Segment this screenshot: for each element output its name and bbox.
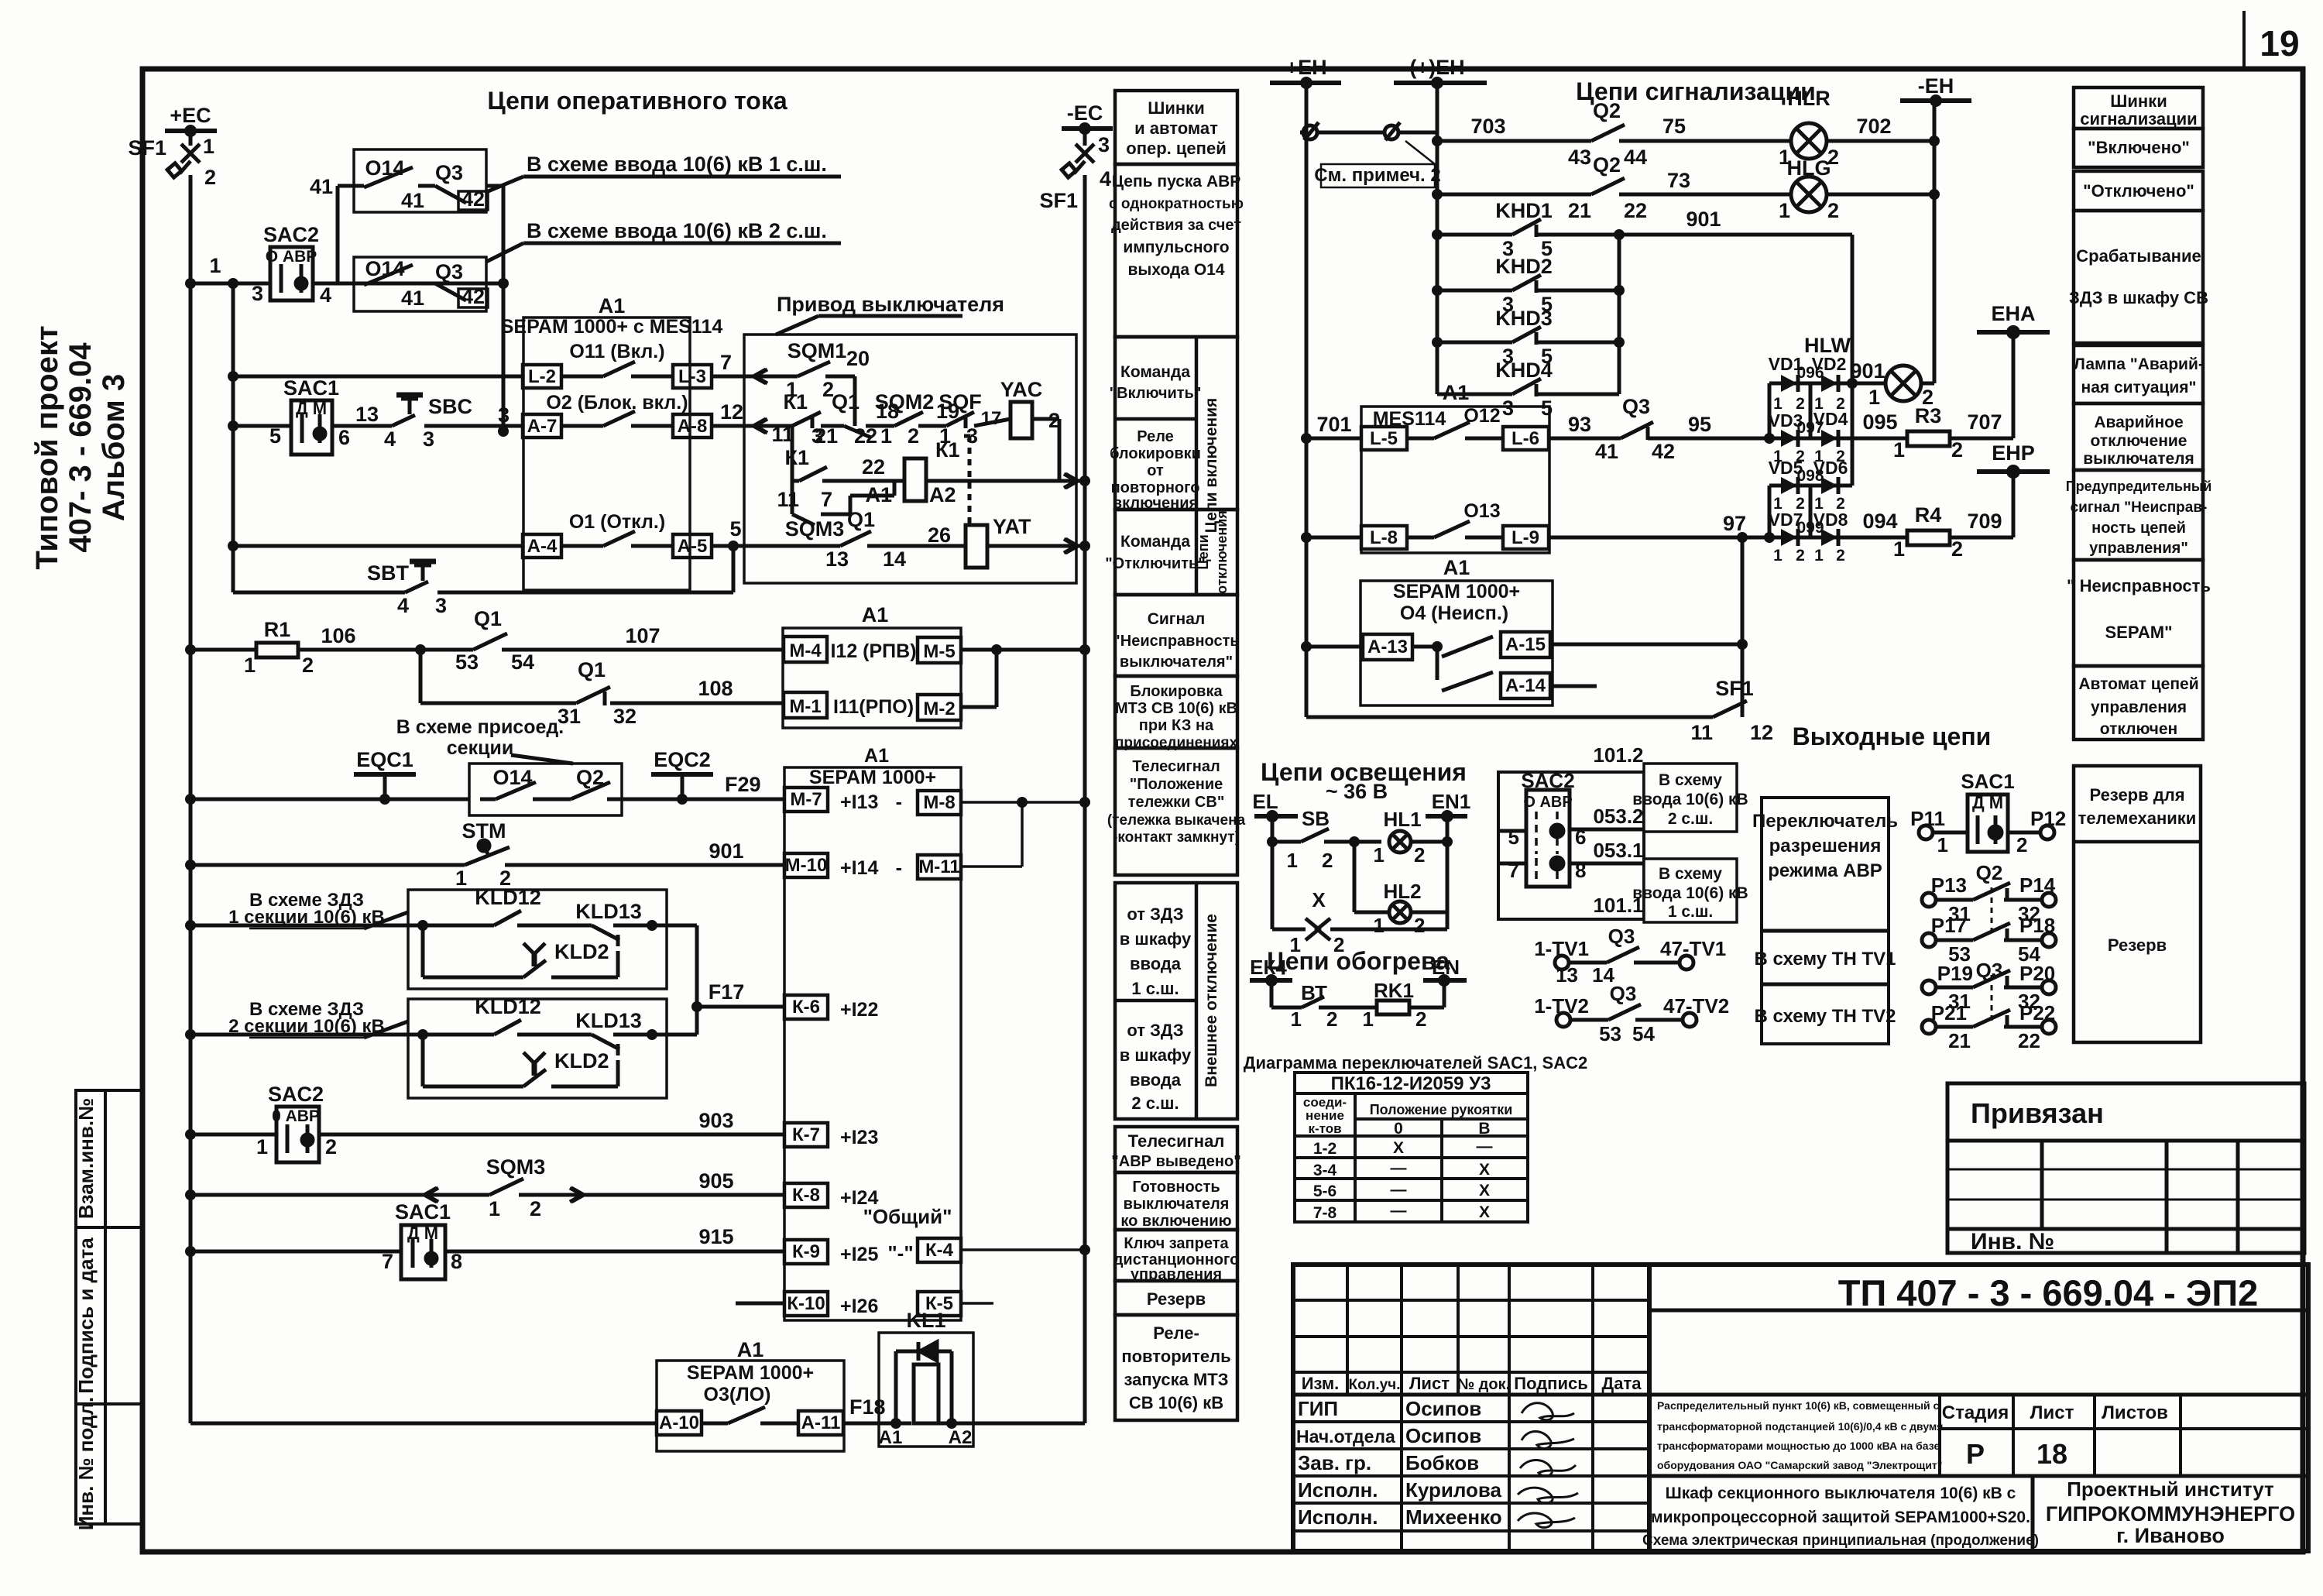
svg-text:запуска МТЗ: запуска МТЗ [1124, 1370, 1229, 1389]
svg-text:Аварийное: Аварийное [2094, 414, 2183, 431]
svg-text:Привязан: Привязан [1971, 1097, 2104, 1129]
svg-text:1: 1 [203, 135, 214, 158]
svg-text:микропроцессорной защитой SEPA: микропроцессорной защитой SEPAM1000+S20. [1651, 1508, 2030, 1526]
svg-text:1: 1 [455, 867, 467, 890]
svg-text:Резерв: Резерв [1147, 1289, 1206, 1309]
svg-text:20: 20 [846, 347, 870, 370]
svg-text:ввода: ввода [1130, 954, 1182, 973]
svg-text:Х: Х [1393, 1139, 1404, 1157]
svg-text:F18: F18 [849, 1395, 886, 1419]
svg-text:97: 97 [1723, 512, 1746, 535]
svg-text:К-8: К-8 [792, 1185, 820, 1206]
svg-text:Исполн.: Исполн. [1298, 1505, 1378, 1529]
svg-text:4: 4 [320, 283, 331, 307]
svg-text:"Положение: "Положение [1130, 776, 1223, 793]
svg-text:096: 096 [1796, 364, 1824, 382]
svg-text:Подпись и дата: Подпись и дата [74, 1237, 98, 1394]
svg-text:SEPAM 1000+: SEPAM 1000+ [687, 1362, 814, 1384]
svg-text:О1 (Откл.): О1 (Откл.) [569, 511, 665, 533]
svg-text:+I22: +I22 [840, 999, 878, 1021]
svg-text:SEPAM 1000+: SEPAM 1000+ [1393, 581, 1520, 602]
svg-text:трансформаторной подстанцией 1: трансформаторной подстанцией 10(6)/0,4 к… [1657, 1420, 1943, 1433]
svg-text:707: 707 [1967, 410, 2002, 434]
svg-text:SEPAM": SEPAM" [2105, 623, 2172, 642]
svg-text:ЕК4: ЕК4 [1250, 956, 1287, 979]
svg-text:Схема электрическая принципиал: Схема электрическая принципиальная (прод… [1642, 1533, 2039, 1549]
svg-text:32: 32 [613, 705, 637, 728]
svg-text:KHD4: KHD4 [1495, 359, 1553, 382]
svg-text:присоединениях: присоединениях [1115, 735, 1238, 751]
svg-text:73: 73 [1667, 169, 1690, 192]
svg-text:1: 1 [1937, 833, 1948, 856]
svg-text:Х: Х [1479, 1161, 1490, 1179]
svg-text:Команда: Команда [1120, 363, 1190, 381]
svg-text:М-5: М-5 [923, 641, 955, 662]
svg-text:18: 18 [2036, 1438, 2067, 1470]
svg-text:выключателя: выключателя [1124, 1196, 1230, 1213]
svg-text:Q3: Q3 [1608, 925, 1635, 948]
svg-text:О2 (Блок. вкл.): О2 (Блок. вкл.) [546, 392, 688, 414]
svg-text:Q3: Q3 [1622, 395, 1650, 418]
svg-text:К1: К1 [784, 390, 808, 414]
svg-text:К1: К1 [935, 438, 960, 462]
svg-text:трансформаторами мощностью до: трансформаторами мощностью до 1000 кВА н… [1657, 1440, 1940, 1452]
svg-text:108: 108 [698, 677, 733, 700]
svg-text:г. Иваново: г. Иваново [2116, 1524, 2225, 1547]
svg-text:Цепь пуска АВР: Цепь пуска АВР [1112, 173, 1241, 190]
svg-text:отключен: отключен [2100, 720, 2177, 738]
svg-text:901: 901 [1686, 208, 1721, 231]
svg-text:К-6: К-6 [792, 997, 820, 1018]
svg-text:К-4: К-4 [925, 1240, 954, 1261]
svg-text:(+)ЕН: (+)ЕН [1409, 56, 1464, 79]
svg-text:Стадия: Стадия [1942, 1402, 2009, 1423]
svg-text:Q3: Q3 [1610, 982, 1637, 1005]
svg-text:1: 1 [244, 654, 256, 677]
svg-text:Д М: Д М [1972, 793, 2003, 812]
svg-text:Q3: Q3 [1976, 959, 2003, 982]
svg-text:Альбом 3: Альбом 3 [97, 374, 131, 521]
svg-text:М-4: М-4 [789, 640, 822, 661]
svg-text:Предупредительный: Предупредительный [2066, 479, 2212, 494]
svg-text:Шкаф секционного выключателя 1: Шкаф секционного выключателя 10(6) кВ с [1666, 1484, 2016, 1502]
svg-text:2: 2 [1951, 438, 1963, 462]
svg-text:11: 11 [771, 423, 794, 446]
svg-text:Резерв: Резерв [2108, 935, 2167, 955]
svg-text:1: 1 [1291, 1007, 1302, 1031]
svg-text:19: 19 [2260, 23, 2299, 63]
svg-text:KLD2: KLD2 [554, 940, 609, 963]
svg-text:—: — [1391, 1202, 1407, 1220]
svg-text:5-6: 5-6 [1313, 1182, 1336, 1200]
svg-text:"Отключено": "Отключено" [2083, 181, 2194, 201]
svg-text:14: 14 [883, 547, 906, 571]
svg-text:М-1: М-1 [789, 696, 821, 717]
svg-text:47-TV2: 47-TV2 [1663, 994, 1729, 1018]
svg-text:ввода 10(6) кВ: ввода 10(6) кВ [1632, 791, 1748, 808]
svg-text:11: 11 [777, 488, 799, 511]
svg-text:Зав. гр.: Зав. гр. [1298, 1451, 1371, 1474]
svg-text:при КЗ на: при КЗ на [1139, 717, 1214, 734]
svg-text:R1: R1 [264, 618, 291, 641]
svg-text:22: 22 [2018, 1029, 2040, 1052]
svg-text:О14: О14 [492, 766, 532, 789]
svg-text:EQC1: EQC1 [356, 748, 413, 771]
svg-text:42: 42 [1652, 440, 1675, 463]
svg-text:телемеханики: телемеханики [2078, 808, 2197, 828]
svg-text:L-2: L-2 [528, 366, 556, 387]
svg-text:Х: Х [1479, 1182, 1490, 1200]
svg-text:О4 (Неисп.): О4 (Неисп.) [1400, 602, 1508, 624]
svg-text:Осипов: Осипов [1405, 1424, 1481, 1447]
svg-text:3-4: 3-4 [1313, 1162, 1337, 1179]
svg-text:В схему ТН TV1: В схему ТН TV1 [1755, 949, 1896, 970]
svg-text:См. примеч. 2: См. примеч. 2 [1314, 165, 1440, 186]
svg-text:О14: О14 [365, 156, 404, 180]
svg-text:Взам.инв.№: Взам.инв.№ [74, 1098, 98, 1219]
svg-text:Q1: Q1 [832, 390, 860, 414]
svg-text:0: 0 [1394, 1120, 1403, 1138]
svg-text:Михеенко: Михеенко [1405, 1505, 1502, 1529]
svg-text:Листов: Листов [2102, 1402, 2168, 1423]
svg-text:MES114: MES114 [1373, 408, 1446, 430]
svg-text:2: 2 [1836, 547, 1845, 565]
svg-text:Нач.отдела: Нач.отдела [1296, 1426, 1395, 1447]
svg-text:Сигнал: Сигнал [1148, 610, 1206, 628]
svg-text:905: 905 [698, 1169, 733, 1193]
svg-text:-ЕН: -ЕН [1918, 74, 1954, 98]
svg-text:P14: P14 [2019, 874, 2056, 897]
svg-text:О АВР: О АВР [1523, 794, 1572, 811]
svg-text:Q2: Q2 [1976, 861, 2003, 884]
svg-text:Реле: Реле [1137, 428, 1174, 445]
svg-text:KHD3: KHD3 [1495, 307, 1553, 330]
svg-text:Лист: Лист [1409, 1374, 1450, 1393]
svg-text:93: 93 [1568, 413, 1591, 436]
svg-text:53: 53 [1599, 1022, 1621, 1045]
svg-text:выхода О14: выхода О14 [1127, 261, 1224, 279]
svg-text:1: 1 [1374, 843, 1385, 867]
svg-text:ТП 407 - 3 - 669.04 - ЭП2: ТП 407 - 3 - 669.04 - ЭП2 [1838, 1272, 2259, 1313]
svg-text:2: 2 [1414, 843, 1425, 867]
svg-text:О3(ЛО): О3(ЛО) [704, 1384, 771, 1406]
svg-text:21: 21 [1568, 199, 1591, 222]
svg-text:режима АВР: режима АВР [1768, 860, 1882, 881]
svg-text:сигнализации: сигнализации [2080, 109, 2197, 129]
svg-text:5: 5 [1541, 396, 1553, 420]
svg-text:1: 1 [1374, 914, 1385, 937]
svg-text:Инв. №: Инв. № [1971, 1229, 2054, 1254]
svg-text:Срабатывание: Срабатывание [2076, 246, 2201, 266]
svg-text:А-10: А-10 [659, 1412, 699, 1433]
svg-text:О13: О13 [1463, 500, 1500, 522]
svg-text:опер. цепей: опер. цепей [1126, 139, 1226, 158]
svg-text:901: 901 [709, 839, 743, 863]
svg-text:903: 903 [698, 1109, 733, 1132]
svg-text:P19: P19 [1937, 962, 1973, 985]
svg-text:HLR: HLR [1787, 87, 1831, 110]
svg-text:2: 2 [302, 654, 314, 677]
svg-text:Подпись: Подпись [1514, 1374, 1588, 1393]
svg-text:0 АВР: 0 АВР [272, 1107, 320, 1125]
svg-text:1 секции 10(6) кВ: 1 секции 10(6) кВ [228, 907, 385, 928]
svg-text:P22: P22 [2019, 1001, 2055, 1025]
svg-text:+I14: +I14 [840, 857, 878, 879]
svg-text:2 с.ш.: 2 с.ш. [1131, 1093, 1179, 1113]
svg-text:Х: Х [1479, 1203, 1490, 1221]
svg-text:22: 22 [1624, 199, 1647, 222]
svg-text:Шинки: Шинки [1148, 98, 1204, 118]
svg-text:SQF: SQF [938, 390, 982, 414]
svg-text:7-8: 7-8 [1313, 1204, 1337, 1222]
svg-text:75: 75 [1662, 115, 1686, 138]
svg-text:41: 41 [310, 175, 333, 198]
svg-text:SAC2: SAC2 [263, 223, 319, 246]
svg-text:Команда: Команда [1120, 533, 1190, 551]
svg-text:ПК16-12-И2059 У3: ПК16-12-И2059 У3 [1331, 1073, 1491, 1094]
svg-text:1-TV2: 1-TV2 [1534, 994, 1589, 1018]
svg-text:К1: К1 [785, 446, 810, 469]
svg-text:оборудования ОАО "Самарский за: оборудования ОАО "Самарский завод "Элект… [1657, 1459, 1942, 1471]
svg-text:А1: А1 [1443, 381, 1470, 404]
svg-text:А1: А1 [879, 1427, 903, 1448]
svg-text:включения: включения [1113, 495, 1198, 512]
svg-text:В: В [1478, 1120, 1490, 1138]
svg-text:KHD1: KHD1 [1495, 199, 1553, 222]
svg-text:1 с.ш.: 1 с.ш. [1131, 979, 1179, 998]
svg-text:действия за счет: действия за счет [1111, 217, 1241, 234]
svg-text:ЕНА: ЕНА [1991, 302, 2035, 325]
svg-text:4: 4 [384, 427, 396, 451]
svg-text:А-11: А-11 [801, 1412, 841, 1433]
svg-text:"-": "-" [887, 1241, 913, 1265]
svg-text:097: 097 [1796, 419, 1824, 437]
svg-text:Ключ запрета: Ключ запрета [1124, 1235, 1229, 1252]
svg-text:"Отключить": "Отключить" [1105, 555, 1206, 572]
svg-text:P11: P11 [1910, 807, 1945, 830]
svg-text:I11(РПО): I11(РПО) [833, 696, 914, 718]
svg-text:SB: SB [1302, 807, 1330, 830]
svg-text:407- 3 - 669.04: 407- 3 - 669.04 [63, 342, 98, 553]
svg-text:106: 106 [321, 624, 355, 647]
svg-text:Q2: Q2 [1593, 99, 1621, 122]
svg-text:Диаграмма переключателей SAC1,: Диаграмма переключателей SAC1, SAC2 [1244, 1053, 1587, 1073]
svg-text:2: 2 [204, 166, 216, 189]
svg-text:SAC2: SAC2 [268, 1083, 324, 1106]
svg-text:P18: P18 [2019, 914, 2055, 937]
svg-text:1-2: 1-2 [1313, 1140, 1336, 1158]
svg-text:3: 3 [966, 424, 978, 448]
svg-text:KHD2: KHD2 [1495, 255, 1553, 278]
svg-text:Блокировка: Блокировка [1130, 683, 1223, 700]
svg-text:А1: А1 [737, 1338, 764, 1361]
svg-text:А-4: А-4 [527, 536, 558, 557]
svg-text:3: 3 [1502, 396, 1514, 420]
svg-text:с однократностью: с однократностью [1109, 196, 1244, 212]
svg-text:ность цепей: ность цепей [2091, 520, 2186, 537]
svg-text:К-7: К-7 [792, 1124, 820, 1145]
svg-text:В схеме ввода 10(6) кВ 2 с.ш.: В схеме ввода 10(6) кВ 2 с.ш. [527, 219, 827, 242]
svg-text:ввода 10(6) кВ: ввода 10(6) кВ [1632, 884, 1748, 902]
svg-text:"Общий": "Общий" [863, 1205, 952, 1228]
svg-text:RK1: RK1 [1374, 979, 1414, 1002]
svg-text:-: - [896, 791, 902, 813]
svg-text:1: 1 [1814, 547, 1824, 565]
svg-text:Q2: Q2 [1593, 153, 1621, 177]
svg-text:2: 2 [530, 1197, 541, 1220]
svg-text:"Включено": "Включено" [2088, 138, 2190, 157]
svg-text:1: 1 [1893, 537, 1905, 561]
svg-text:от ЗДЗ: от ЗДЗ [1127, 904, 1183, 924]
svg-text:SBC: SBC [428, 395, 472, 418]
svg-text:—: — [1391, 1159, 1407, 1177]
svg-text:EQC2: EQC2 [654, 748, 711, 771]
svg-text:отключения: отключения [1214, 510, 1230, 594]
svg-text:М-2: М-2 [923, 698, 955, 719]
svg-text:4: 4 [397, 594, 409, 617]
svg-text:EL: EL [1252, 790, 1278, 813]
svg-text:P17: P17 [1931, 914, 1967, 937]
svg-text:сигнал "Неисправ-: сигнал "Неисправ- [2071, 499, 2208, 516]
svg-text:в шкафу: в шкафу [1120, 929, 1192, 949]
svg-text:Распределительный пункт 10(6): Распределительный пункт 10(6) кВ, совмещ… [1657, 1399, 1940, 1412]
svg-text:О АВР: О АВР [266, 248, 317, 266]
svg-text:1: 1 [1868, 386, 1880, 409]
svg-text:L-8: L-8 [1370, 527, 1398, 548]
svg-text:+I25: +I25 [840, 1244, 878, 1265]
svg-text:О14: О14 [365, 257, 404, 280]
svg-text:от: от [1147, 462, 1164, 479]
svg-text:и автомат: и автомат [1134, 118, 1218, 138]
svg-text:2: 2 [908, 424, 919, 448]
svg-text:Проектный институт: Проектный институт [2067, 1478, 2274, 1501]
svg-text:импульсного: импульсного [1123, 239, 1229, 256]
svg-text:—: — [1477, 1138, 1493, 1155]
svg-text:А1: А1 [865, 483, 892, 506]
svg-text:1-TV1: 1-TV1 [1534, 937, 1589, 960]
svg-text:47-TV1: 47-TV1 [1660, 937, 1726, 960]
svg-text:В схеме ввода 10(6) кВ 1 с.ш.: В схеме ввода 10(6) кВ 1 с.ш. [527, 153, 827, 176]
svg-text:915: 915 [698, 1225, 733, 1248]
svg-text:2: 2 [1333, 933, 1344, 956]
svg-text:2: 2 [1796, 547, 1805, 565]
svg-text:+ЕС: +ЕС [170, 104, 211, 127]
svg-text:11: 11 [1690, 721, 1713, 744]
svg-text:7: 7 [720, 351, 732, 374]
svg-text:-ЕС: -ЕС [1067, 101, 1103, 125]
svg-text:42: 42 [462, 285, 485, 308]
svg-text:Шинки: Шинки [2110, 91, 2167, 111]
svg-text:управления: управления [2091, 698, 2187, 716]
svg-text:41: 41 [1595, 440, 1618, 463]
svg-text:26: 26 [928, 523, 951, 547]
svg-text:5: 5 [269, 424, 281, 448]
svg-text:SAC1: SAC1 [395, 1200, 451, 1224]
svg-text:1: 1 [1893, 438, 1905, 462]
svg-text:13: 13 [355, 403, 379, 426]
svg-text:К-10: К-10 [787, 1293, 825, 1314]
svg-text:управления": управления" [2089, 540, 2188, 557]
svg-text:ВТ: ВТ [1301, 981, 1327, 1004]
svg-text:54: 54 [1632, 1022, 1655, 1045]
svg-text:107: 107 [625, 624, 660, 647]
svg-text:ко включению: ко включению [1120, 1213, 1231, 1230]
svg-text:-контакт замкнут): -контакт замкнут) [1113, 829, 1240, 846]
svg-text:1: 1 [209, 254, 221, 277]
svg-text:7: 7 [382, 1250, 393, 1273]
svg-text:А-13: А-13 [1367, 637, 1408, 657]
svg-text:отключение: отключение [2091, 432, 2187, 450]
svg-text:L-6: L-6 [1511, 428, 1539, 449]
svg-text:повторитель: повторитель [1121, 1347, 1230, 1366]
svg-text:702: 702 [1856, 115, 1891, 138]
svg-text:SQM3: SQM3 [785, 517, 845, 541]
svg-text:KLD13: KLD13 [575, 900, 642, 923]
svg-text:М-7: М-7 [790, 789, 822, 810]
svg-text:М-10: М-10 [785, 855, 828, 876]
svg-text:Положение рукоятки: Положение рукоятки [1370, 1102, 1513, 1117]
svg-text:Реле-: Реле- [1153, 1323, 1199, 1343]
svg-text:095: 095 [1862, 410, 1897, 434]
svg-text:701: 701 [1316, 413, 1351, 436]
svg-text:1: 1 [1287, 849, 1298, 872]
svg-text:SEPAM 1000+ с MES114: SEPAM 1000+ с MES114 [501, 316, 723, 338]
svg-text:блокировки: блокировки [1110, 445, 1201, 462]
svg-text:тележки СВ": тележки СВ" [1128, 794, 1225, 811]
svg-text:709: 709 [1967, 510, 2002, 533]
svg-text:95: 95 [1688, 413, 1711, 436]
svg-text:HLW: HLW [1804, 334, 1851, 357]
svg-text:Д М: Д М [296, 399, 327, 418]
svg-text:+I13: +I13 [840, 791, 878, 813]
svg-text:2: 2 [325, 1135, 337, 1158]
svg-text:F17: F17 [709, 980, 745, 1004]
svg-text:6: 6 [1575, 825, 1586, 849]
svg-text:3: 3 [498, 403, 510, 427]
svg-text:3: 3 [435, 594, 447, 617]
svg-text:P21: P21 [1931, 1001, 1967, 1025]
svg-text:1: 1 [1363, 1007, 1374, 1031]
svg-text:Q2: Q2 [576, 766, 604, 789]
svg-text:Резерв для: Резерв для [2089, 785, 2184, 805]
svg-text:SQM3: SQM3 [486, 1155, 546, 1179]
svg-text:Дата: Дата [1602, 1374, 1642, 1393]
svg-text:—: — [1391, 1181, 1407, 1199]
svg-text:22: 22 [862, 455, 885, 479]
svg-text:53: 53 [455, 650, 479, 674]
svg-text:SAC2: SAC2 [1521, 769, 1574, 792]
svg-text:Х: Х [1312, 888, 1326, 911]
svg-text:44: 44 [1624, 146, 1647, 169]
svg-text:SEPAM 1000+: SEPAM 1000+ [809, 767, 936, 788]
svg-text:выключателя": выключателя" [1120, 654, 1233, 671]
svg-text:2: 2 [1048, 409, 1060, 432]
svg-text:ГИП: ГИП [1298, 1397, 1338, 1420]
svg-text:12: 12 [720, 400, 743, 424]
svg-text:L-3: L-3 [678, 366, 706, 387]
svg-text:SBT: SBT [367, 561, 410, 585]
svg-text:703: 703 [1470, 115, 1505, 138]
svg-text:Q1: Q1 [847, 508, 875, 531]
svg-text:21: 21 [1948, 1029, 1971, 1052]
svg-text:HLG: HLG [1787, 156, 1831, 180]
svg-text:2: 2 [2016, 833, 2027, 856]
svg-text:Q3: Q3 [435, 161, 463, 184]
svg-text:R4: R4 [1915, 503, 1942, 527]
svg-text:8: 8 [1575, 859, 1586, 882]
svg-text:2 с.ш.: 2 с.ш. [1668, 810, 1713, 828]
svg-text:EN: EN [1432, 956, 1460, 979]
